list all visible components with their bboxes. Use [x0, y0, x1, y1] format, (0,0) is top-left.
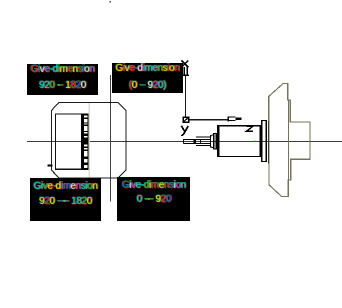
end rings: [262, 120, 267, 162]
left tick mark: [47, 165, 52, 167]
label box B3: [30, 178, 101, 222]
tan centerline vertical: [88, 103, 90, 178]
rod flange: [213, 134, 216, 149]
wire vertical line V1: [109, 75, 111, 201]
horizontal centerline: [27, 140, 342, 142]
knuckle inner line: [287, 100, 289, 180]
label box B4: [117, 177, 190, 222]
z axis arrow glyph: [227, 116, 229, 121]
octagon housing outline: [51, 103, 126, 178]
tick dot top: [109, 1, 111, 3]
green vertex dot: [254, 141, 255, 142]
cylinder body: [218, 126, 261, 157]
inner rectangle: [55, 114, 88, 169]
rod mid section: [196, 137, 210, 145]
z axis leader: [189, 119, 227, 121]
origin box: [183, 117, 189, 122]
label y: [181, 126, 188, 135]
label box B2: [112, 63, 183, 94]
wire vertical line V2: [185, 76, 187, 117]
thick bar with notches: [81, 113, 88, 169]
rod step section: [210, 135, 213, 147]
knuckle profile: [269, 84, 310, 197]
label z: [247, 126, 254, 131]
label box B1: [27, 64, 98, 95]
rod nut: [193, 139, 196, 144]
rod thin section: [183, 139, 193, 143]
marker stem bracket: [184, 67, 187, 75]
marker X: [181, 60, 188, 67]
